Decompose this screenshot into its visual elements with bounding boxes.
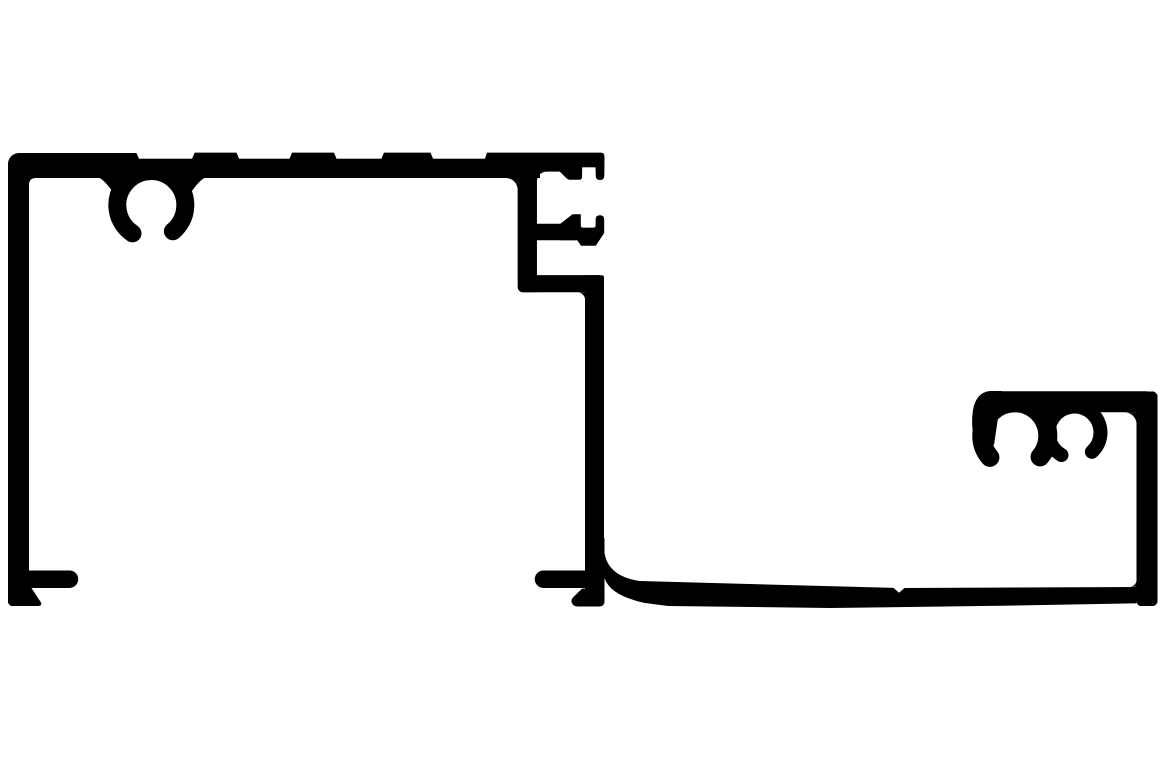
- fillet box inner top-left: [29, 178, 36, 185]
- gasket hook 1 left jaw: [558, 164, 582, 180]
- right wall outer corner rounding: [1151, 391, 1158, 398]
- W3 bottom block with flare: [571, 538, 604, 607]
- fillet top wall to W2 left: [503, 178, 518, 192]
- bottom bend and bottom wall with V notch: [603, 547, 1141, 608]
- right wall: [1137, 392, 1158, 607]
- serration tab 3: [381, 153, 435, 161]
- plateau right chamfer: [136, 153, 140, 161]
- arm left end slope: [972, 391, 1002, 445]
- fillet thin wall to W2 right: [537, 172, 548, 183]
- gasket hook 1 slot (white): [582, 167, 595, 183]
- descending wall W3: [585, 275, 604, 545]
- right top arm: [992, 391, 1146, 412]
- shelf outer corner rounding: [601, 275, 605, 279]
- left wall: [8, 168, 29, 606]
- screw boss C-ring: [117, 171, 185, 233]
- gasket hook 2 arm: [536, 224, 576, 241]
- fillet arm underside to right wall: [1125, 412, 1137, 424]
- gasket hook 2 head: [560, 214, 604, 246]
- serration tab 1: [191, 153, 240, 161]
- gasket hook 1 right stub: [596, 158, 605, 180]
- screw boss right fillet: [182, 177, 206, 197]
- top-left outer corner rounding: [8, 153, 19, 164]
- serration plateau (right section): [484, 153, 605, 163]
- left foot stub: [29, 570, 70, 588]
- middle foot stub: [544, 570, 591, 588]
- bottom-left outer corner rounding: [8, 601, 14, 607]
- glazing hook C1: [982, 403, 1048, 458]
- fillet bottom wall to right wall: [1130, 580, 1137, 587]
- top-right outer corner rounding: [601, 153, 605, 157]
- fillet shelf underside to W3: [578, 292, 586, 300]
- mullion wall W2: [518, 170, 537, 292]
- left wall bottom flare: [29, 584, 42, 606]
- right wall bottom-left corner rounding: [1136, 601, 1141, 606]
- serration tab 2: [289, 153, 338, 161]
- top wall base (left of mullion): [8, 159, 540, 178]
- top wall plateau (left corner section): [8, 153, 137, 178]
- glazing hook C2: [1048, 407, 1100, 456]
- screw boss left fillet: [98, 177, 122, 197]
- shelf: [518, 275, 600, 292]
- bottom-right outer corner rounding: [1152, 601, 1158, 607]
- top wall base (thin section right of mullion): [536, 153, 604, 172]
- W2 bottom-left corner rounding: [518, 287, 524, 293]
